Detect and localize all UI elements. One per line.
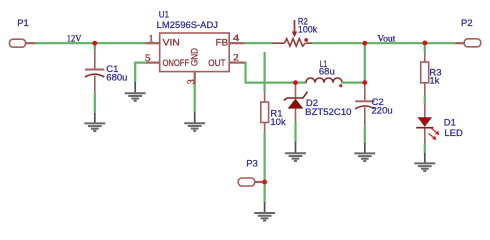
connector P3	[238, 178, 264, 186]
svg-text:GND: GND	[190, 48, 200, 66]
svg-text:OUT: OUT	[208, 58, 226, 68]
svg-text:BZT52C10: BZT52C10	[305, 107, 351, 118]
wire R2 to Vout junction	[312, 42, 365, 44]
L1 polarity dot	[339, 84, 342, 87]
wire C2 to ground	[364, 126, 366, 144]
resistor R1	[261, 93, 269, 134]
LED D1	[416, 104, 433, 144]
wire R1 to P3 junction and ground	[264, 133, 266, 203]
svg-text:2: 2	[233, 54, 239, 64]
resistor R3	[421, 43, 429, 95]
inductor L1	[306, 78, 342, 83]
wire D2 to ground	[294, 122, 296, 143]
svg-text:ONOFF: ONOFF	[163, 58, 190, 68]
zener diode D2	[284, 84, 308, 122]
D1 emission arrows	[429, 128, 439, 139]
svg-text:1k: 1k	[429, 75, 439, 86]
svg-text:10k: 10k	[270, 117, 286, 128]
U1 pin 1 stub	[146, 42, 160, 44]
capacitor C2	[355, 84, 374, 126]
wire D2 junction to L1	[296, 81, 307, 83]
svg-text:4: 4	[233, 34, 240, 44]
junction at P3	[262, 180, 267, 185]
ground under P3	[254, 202, 275, 220]
wire U1 FB to R2	[245, 42, 274, 44]
svg-text:VIN: VIN	[163, 38, 180, 48]
svg-text:3: 3	[187, 79, 197, 84]
U1 pin 2 stub	[229, 61, 245, 63]
svg-text:220u: 220u	[372, 106, 393, 117]
wire L1 to C2 junction	[342, 81, 365, 83]
ground under C2	[354, 143, 375, 161]
svg-text:12V: 12V	[67, 34, 82, 44]
junction at C2	[362, 80, 367, 85]
wire net 12V: P1 to U1 VIN	[35, 42, 146, 44]
svg-text:P1: P1	[17, 18, 29, 29]
wire U1 ONOFF to ground	[135, 63, 146, 83]
connector P2	[456, 39, 481, 47]
wire U1 GND pin to ground	[194, 85, 196, 113]
wire R1 branch (vertical)	[264, 52, 266, 93]
U1 pin 3 stub	[194, 72, 196, 85]
svg-text:LED: LED	[444, 128, 463, 139]
ground under C1	[84, 113, 105, 131]
svg-text:100k: 100k	[298, 24, 318, 35]
svg-text:LM2596S-ADJ: LM2596S-ADJ	[157, 20, 219, 31]
wire Vout to P2	[365, 42, 456, 44]
svg-text:1: 1	[149, 34, 154, 44]
IC U1 body	[160, 33, 230, 72]
U1 pin 4 stub	[229, 42, 245, 44]
svg-text:Vout: Vout	[377, 34, 396, 44]
junction at R3 branch	[423, 41, 428, 46]
junction Vout / L1	[362, 41, 367, 46]
junction at D2	[293, 80, 298, 85]
wire D1 to ground	[424, 144, 426, 154]
ground at ONOFF	[125, 82, 146, 101]
resistor R2 (trimmer, zigzag)	[273, 39, 313, 47]
R2 wiper arrow	[292, 20, 308, 42]
svg-text:FB: FB	[216, 38, 229, 48]
svg-text:P3: P3	[246, 158, 258, 169]
wire U1 OUT down and right to L1	[245, 63, 296, 83]
connector P1	[10, 39, 37, 47]
U1 pin 5 stub	[146, 61, 160, 63]
capacitor C1	[85, 43, 104, 92]
svg-text:680u: 680u	[106, 72, 127, 83]
wire C1 to ground	[94, 93, 96, 114]
ground under D1	[414, 153, 435, 171]
ground under D2	[285, 142, 306, 161]
wire C2 junction up to Vout rail	[364, 43, 366, 82]
ground under U1 GND pin	[184, 112, 205, 131]
svg-text:P2: P2	[461, 18, 473, 29]
wire R3 to D1	[424, 96, 426, 105]
svg-text:U1: U1	[159, 10, 169, 21]
svg-text:68u: 68u	[319, 67, 335, 78]
junction at C1 branch	[92, 41, 97, 46]
